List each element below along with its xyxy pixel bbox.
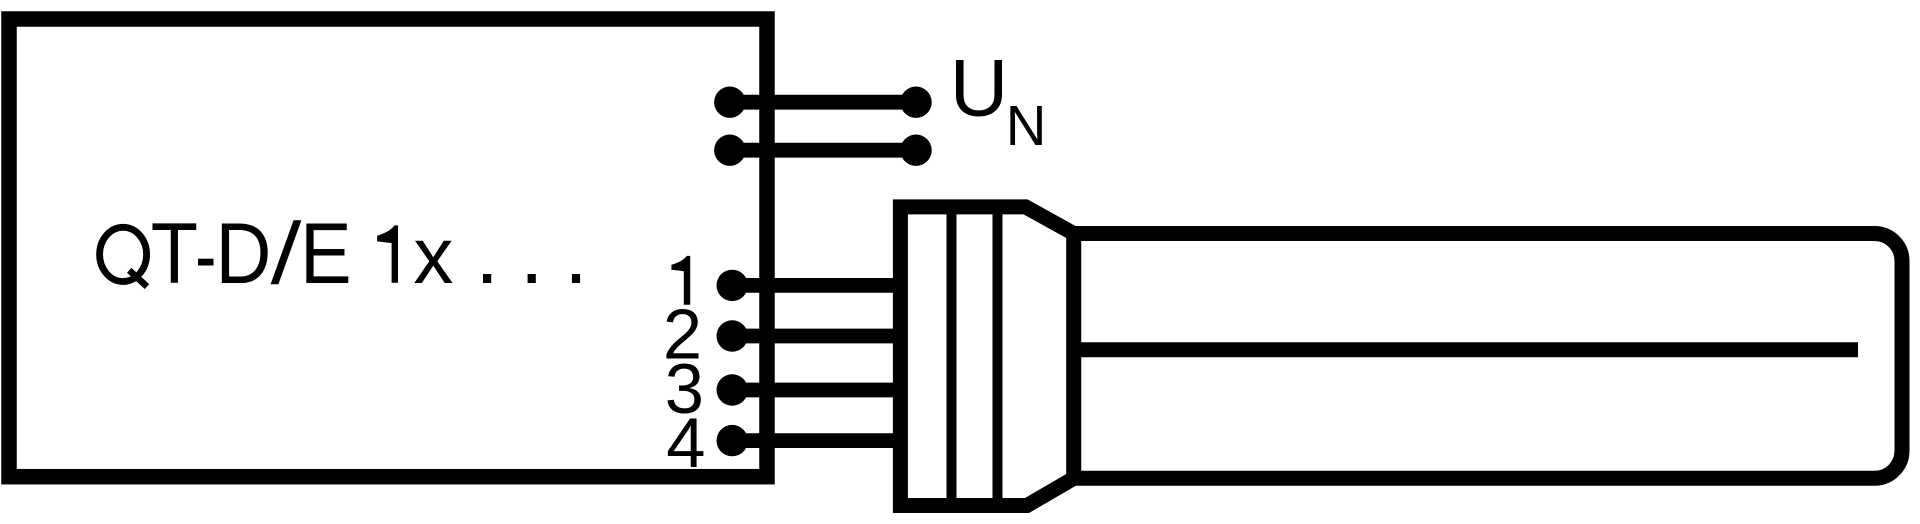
node mains supply dot line 1 <box>900 87 931 118</box>
label ellipsis dot 1 <box>483 274 491 283</box>
wire pin 2 to lamp <box>732 329 900 344</box>
node pin 3 terminal dot <box>717 374 748 405</box>
svg-text:N: N <box>1006 94 1047 157</box>
lamp base contact divider 2 <box>993 207 1003 506</box>
label ellipsis dot 3 <box>572 274 580 283</box>
svg-text:T: T <box>151 206 198 302</box>
label digit 1 <box>377 225 398 282</box>
svg-text:4: 4 <box>666 403 705 482</box>
wire mains line 1 <box>730 95 916 110</box>
node mains terminal dot line 1 (box side) <box>714 87 745 118</box>
svg-text:E: E <box>300 206 352 302</box>
label letter Q tail <box>129 270 147 286</box>
ballast box U1 QT-D/E 1x... <box>9 19 767 477</box>
node mains terminal dot line 2 (box side) <box>714 135 745 166</box>
svg-text:U: U <box>950 44 1009 134</box>
node pin 2 terminal dot <box>717 320 748 351</box>
svg-text:x: x <box>413 211 453 300</box>
label QT-D/E 1x . . . : letter Q (ring) <box>100 227 147 281</box>
node pin 4 terminal dot <box>717 425 748 456</box>
wire pin 4 to lamp <box>732 433 900 448</box>
svg-text:D: D <box>216 206 272 302</box>
node mains supply dot line 2 <box>900 135 931 166</box>
wire mains line 2 <box>730 143 916 158</box>
lamp tube fold line <box>1074 342 1858 357</box>
pin 1 label (digit 1) <box>671 256 690 305</box>
lamp LA1 base (socket) outline <box>900 207 1073 506</box>
lamp base contact divider 1 <box>947 207 957 506</box>
lamp LA1 tube outline <box>1074 234 1902 479</box>
node pin 1 terminal dot <box>717 270 748 301</box>
label ellipsis dot 2 <box>528 274 536 283</box>
wire pin 3 to lamp <box>732 383 900 398</box>
label slash <box>271 220 302 284</box>
wire pin 1 to lamp <box>732 278 900 293</box>
label hyphen <box>198 259 214 266</box>
